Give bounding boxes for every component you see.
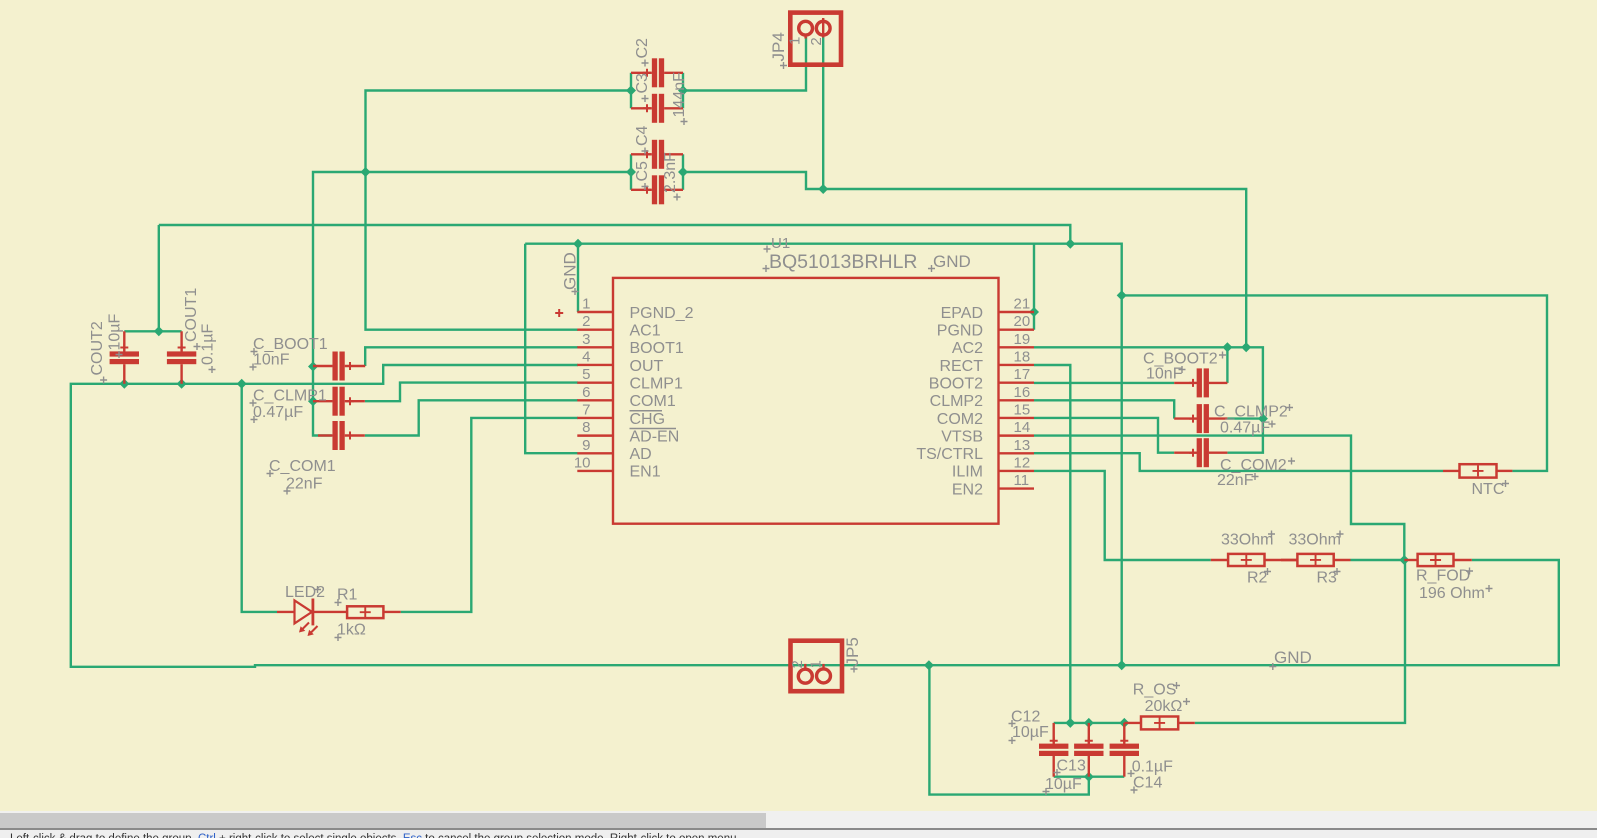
svg-text:7: 7 — [582, 401, 590, 418]
svg-text:VTSB: VTSB — [941, 428, 983, 445]
svg-text:RECT: RECT — [939, 358, 983, 375]
svg-text:R1: R1 — [337, 587, 358, 604]
svg-text:21: 21 — [1014, 296, 1031, 313]
svg-text:NTC: NTC — [1472, 481, 1505, 498]
svg-text:C13: C13 — [1057, 758, 1086, 775]
svg-text:20kΩ: 20kΩ — [1145, 698, 1183, 715]
svg-text:EN1: EN1 — [630, 464, 661, 481]
svg-text:22nF: 22nF — [286, 476, 323, 493]
svg-text:10µF: 10µF — [1045, 776, 1082, 793]
svg-text:TS/CTRL: TS/CTRL — [916, 446, 983, 463]
svg-text:0.1µF: 0.1µF — [1132, 759, 1173, 776]
svg-text:22nF: 22nF — [1217, 472, 1254, 489]
svg-text:C4: C4 — [634, 125, 651, 146]
svg-text:18: 18 — [1014, 348, 1031, 365]
svg-text:AD-EN: AD-EN — [630, 428, 680, 445]
svg-text:COM2: COM2 — [937, 411, 983, 428]
svg-text:2: 2 — [789, 660, 806, 668]
svg-text:GND: GND — [1274, 648, 1312, 667]
svg-text:2.3nF: 2.3nF — [662, 152, 679, 193]
svg-text:1: 1 — [582, 296, 590, 313]
svg-text:C_COM1: C_COM1 — [269, 458, 336, 475]
svg-text:COM1: COM1 — [630, 393, 676, 410]
svg-text:CLMP2: CLMP2 — [930, 393, 983, 410]
svg-text:33Ohm: 33Ohm — [1289, 532, 1341, 549]
svg-text:17: 17 — [1014, 366, 1031, 383]
svg-text:AD: AD — [630, 446, 652, 463]
svg-text:2: 2 — [808, 37, 825, 45]
svg-text:COUT2: COUT2 — [89, 321, 106, 375]
svg-text:EPAD: EPAD — [941, 305, 983, 322]
svg-text:PGND_2: PGND_2 — [630, 305, 694, 322]
svg-text:196 Ohm: 196 Ohm — [1419, 585, 1485, 602]
svg-text:OUT: OUT — [630, 358, 664, 375]
svg-text:12: 12 — [1014, 454, 1031, 471]
svg-text:GND: GND — [933, 252, 971, 271]
svg-text:R2: R2 — [1247, 570, 1268, 587]
svg-text:C5: C5 — [634, 161, 651, 182]
svg-text:16: 16 — [1014, 384, 1031, 401]
svg-text:CHG: CHG — [630, 411, 666, 428]
svg-text:R_FOD: R_FOD — [1416, 568, 1470, 585]
svg-text:U1: U1 — [771, 235, 790, 252]
svg-text:EN2: EN2 — [952, 481, 983, 498]
svg-text:JP5: JP5 — [843, 637, 862, 666]
svg-text:AC1: AC1 — [630, 322, 661, 339]
svg-text:9: 9 — [582, 437, 590, 454]
svg-text:GND: GND — [561, 252, 580, 290]
svg-text:11: 11 — [1014, 472, 1030, 489]
svg-text:10µF: 10µF — [107, 313, 124, 350]
svg-text:13: 13 — [1014, 437, 1031, 454]
svg-text:AC2: AC2 — [952, 340, 983, 357]
svg-text:0.47µF: 0.47µF — [253, 404, 303, 421]
svg-text:10nF: 10nF — [1146, 366, 1183, 383]
svg-text:0.47µF: 0.47µF — [1220, 420, 1270, 437]
svg-text:C14: C14 — [1133, 775, 1162, 792]
svg-text:20: 20 — [1014, 313, 1031, 330]
svg-text:0.1µF: 0.1µF — [200, 324, 217, 365]
svg-text:BOOT2: BOOT2 — [929, 375, 983, 392]
svg-text:COUT1: COUT1 — [183, 288, 200, 342]
svg-text:R3: R3 — [1317, 570, 1338, 587]
svg-text:4: 4 — [582, 348, 590, 365]
svg-text:C2: C2 — [634, 38, 651, 59]
svg-text:10nF: 10nF — [253, 352, 290, 369]
svg-text:PGND: PGND — [937, 322, 983, 339]
svg-text:19: 19 — [1014, 331, 1031, 348]
svg-text:10µF: 10µF — [1012, 724, 1049, 741]
svg-text:6: 6 — [582, 384, 590, 401]
svg-text:LED2: LED2 — [285, 584, 325, 601]
svg-text:15: 15 — [1014, 401, 1031, 418]
svg-text:10: 10 — [574, 454, 591, 471]
svg-text:BQ51013BRHLR: BQ51013BRHLR — [769, 251, 918, 273]
svg-text:1: 1 — [808, 660, 825, 668]
svg-text:ILIM: ILIM — [952, 464, 983, 481]
svg-text:14: 14 — [1014, 419, 1031, 436]
svg-text:5: 5 — [582, 366, 590, 383]
svg-text:C_CLMP1: C_CLMP1 — [253, 388, 327, 405]
svg-text:1kΩ: 1kΩ — [337, 622, 366, 639]
svg-text:C12: C12 — [1011, 709, 1040, 726]
svg-text:33Ohm: 33Ohm — [1221, 532, 1273, 549]
svg-text:JP4: JP4 — [769, 32, 788, 61]
svg-text:R_OS: R_OS — [1133, 682, 1177, 699]
svg-text:8: 8 — [582, 419, 590, 436]
svg-text:1: 1 — [787, 37, 804, 45]
svg-text:CLMP1: CLMP1 — [630, 375, 683, 392]
svg-text:144nF: 144nF — [671, 72, 688, 118]
svg-text:C3: C3 — [634, 73, 651, 94]
svg-text:C_BOOT1: C_BOOT1 — [253, 336, 328, 353]
svg-text:3: 3 — [582, 331, 590, 348]
svg-text:2: 2 — [582, 313, 590, 330]
svg-text:C_CLMP2: C_CLMP2 — [1214, 404, 1288, 421]
svg-text:BOOT1: BOOT1 — [630, 340, 684, 357]
